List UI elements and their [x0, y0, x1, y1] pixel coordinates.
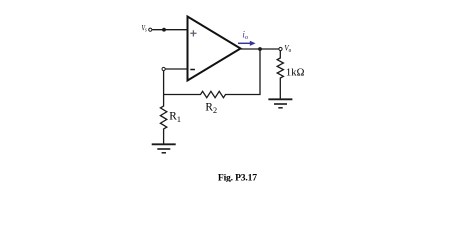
- svg-text:Fig. P3.17: Fig. P3.17: [218, 172, 257, 182]
- svg-text:1kΩ: 1kΩ: [286, 67, 305, 78]
